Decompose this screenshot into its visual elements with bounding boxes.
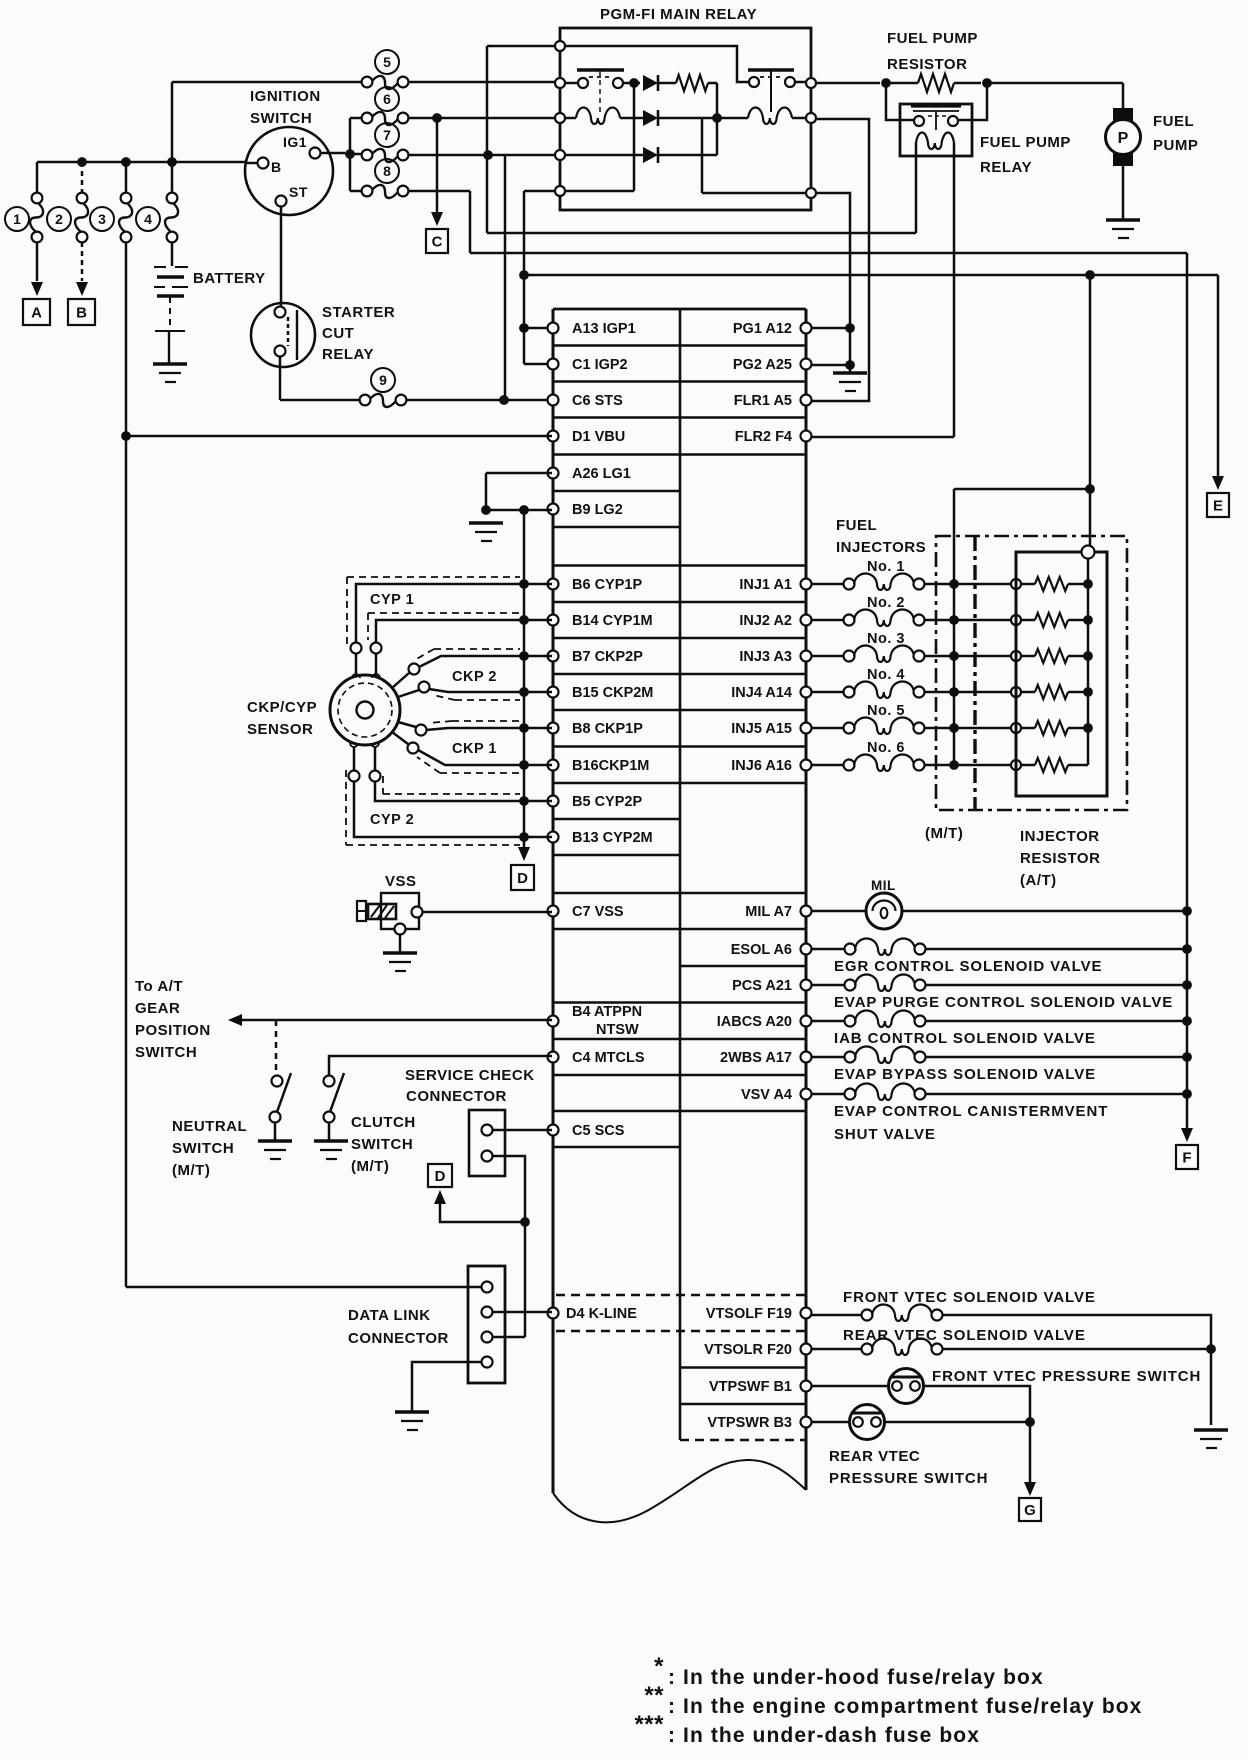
ECM row line	[553, 745, 806, 748]
wire fuse2 top lead (dashed)	[81, 162, 84, 193]
wire fuse4 to battery	[171, 242, 174, 266]
ECM pin 2WBS A17	[801, 1052, 812, 1063]
svg-text:BATTERY: BATTERY	[193, 270, 266, 287]
clutch switch blade	[330, 1073, 344, 1112]
junction shield bus	[519, 832, 529, 842]
connector ref E	[1207, 493, 1229, 517]
svg-text:*: *	[654, 1653, 664, 1680]
wire rear VTEC solenoid to ground bus	[942, 1348, 1211, 1351]
wire solenoid	[811, 1056, 845, 1059]
ECM row line	[553, 601, 806, 604]
power ground	[833, 371, 867, 375]
ECM pin VTPSWR B3	[801, 1417, 812, 1428]
wire CKP1 stub	[392, 732, 408, 744]
svg-text:POSITION: POSITION	[135, 1022, 211, 1039]
neutral switch contact	[272, 1076, 283, 1087]
ECM pin B15 CKP2M	[548, 687, 559, 698]
svg-text:P: P	[1118, 130, 1129, 147]
svg-text:CYP 1: CYP 1	[370, 592, 414, 608]
clutch switch contact	[324, 1112, 335, 1123]
relay contact 2	[748, 68, 794, 71]
solenoid terminal	[845, 1016, 856, 1027]
svg-text:B5 CYP2P: B5 CYP2P	[572, 794, 642, 810]
wire B8 CKP1P	[426, 728, 552, 730]
CKP2 terminal	[409, 664, 420, 675]
solenoid terminal	[845, 1052, 856, 1063]
arrow to F	[1181, 1128, 1193, 1142]
VSS sensor	[381, 893, 419, 929]
svg-text:: In the under-dash fuse box: : In the under-dash fuse box	[668, 1724, 980, 1747]
junction shield bus	[519, 651, 529, 661]
wire to relay pin1	[487, 45, 560, 48]
shield (dashed)	[417, 757, 440, 773]
front VTEC solenoid terminal	[862, 1310, 873, 1321]
svg-text:(A/T): (A/T)	[1020, 872, 1057, 889]
injector resistor pin 2	[1011, 615, 1021, 625]
svg-text:IGNITION: IGNITION	[250, 88, 321, 105]
ECM pin ESOL A6	[801, 944, 812, 955]
injector 1 terminal	[844, 579, 855, 590]
junction shield bus	[519, 760, 529, 770]
injector 3 terminal	[844, 651, 855, 662]
fuse number 4	[136, 207, 160, 231]
junction injector bus	[1085, 484, 1095, 494]
contact1 left	[578, 78, 588, 88]
ECM pin INJ3 A3	[801, 651, 812, 662]
pin ST	[276, 196, 287, 207]
wire B13 CYP2M	[354, 782, 552, 837]
wire resistor out	[708, 82, 717, 85]
wire IGP drop to injector resistor	[1089, 275, 1092, 545]
solenoid terminal	[915, 980, 926, 991]
svg-text:B4 ATPPN: B4 ATPPN	[572, 1004, 642, 1020]
fuse 1	[32, 193, 43, 204]
solenoid terminal	[915, 944, 926, 955]
svg-text:B8 CKP1P: B8 CKP1P	[572, 721, 643, 737]
svg-text:EVAP PURGE CONTROL SOLENOID VA: EVAP PURGE CONTROL SOLENOID VALVE	[834, 994, 1173, 1011]
svg-text:MIL: MIL	[871, 878, 896, 893]
rear VTEC solenoid terminal	[932, 1344, 943, 1355]
rear pressure switch contact	[853, 1417, 863, 1427]
wire MIL A7	[811, 910, 1186, 913]
wire solenoid to F bus	[925, 1056, 1186, 1059]
fuel pump relay box	[900, 104, 972, 156]
injector resistor element 3	[1035, 649, 1068, 663]
starter cut relay	[251, 303, 315, 367]
wire INJ2	[811, 619, 844, 622]
wire solenoid	[811, 948, 845, 951]
svg-text:SERVICE CHECK: SERVICE CHECK	[405, 1067, 535, 1084]
junction fuse7 / relay pin1 riser	[483, 150, 493, 160]
junction D ref	[520, 1217, 530, 1227]
injector resistor element 2	[1035, 613, 1068, 627]
wire	[1068, 764, 1088, 767]
svg-text:VTSOLR F20: VTSOLR F20	[704, 1342, 792, 1358]
wire	[1068, 691, 1088, 694]
svg-text:No. 2: No. 2	[867, 595, 905, 611]
junction F bus	[1182, 1016, 1192, 1026]
fuse number 8	[375, 159, 399, 183]
wire injector common bus	[953, 489, 956, 765]
wire IGP riser	[523, 191, 526, 364]
svg-text:ESOL A6: ESOL A6	[731, 942, 792, 958]
wire to fuel pump relay coil	[487, 232, 916, 235]
svg-text:VSS: VSS	[385, 873, 417, 890]
wire LG1 down	[485, 473, 488, 510]
svg-text:INJ5 A15: INJ5 A15	[731, 721, 792, 737]
front pressure switch contact	[892, 1381, 902, 1391]
injector resistor pin 1	[1011, 579, 1021, 589]
svg-text:G: G	[1024, 1502, 1036, 1519]
ECM row line	[553, 380, 806, 383]
ECM row line	[553, 1110, 806, 1113]
wire clutch switch to ground	[328, 1123, 331, 1141]
ECM pin INJ1 A1	[801, 579, 812, 590]
connector ref B	[68, 299, 95, 325]
svg-text:RESISTOR: RESISTOR	[1020, 850, 1100, 867]
junction shield bus	[519, 723, 529, 733]
fuse 5	[362, 77, 373, 88]
contact2 left	[749, 77, 759, 87]
svg-text:CLUTCH: CLUTCH	[351, 1114, 416, 1131]
injector 3 terminal	[914, 651, 925, 662]
svg-text:RESISTOR: RESISTOR	[887, 56, 967, 73]
wire feed to fuse 5	[172, 81, 362, 84]
injector resistor element 5	[1035, 721, 1068, 735]
svg-text:A13 IGP1: A13 IGP1	[572, 321, 636, 337]
VSS ground	[383, 951, 417, 955]
svg-text:No. 5: No. 5	[867, 703, 905, 719]
ECM left-column row line	[553, 818, 680, 821]
svg-text:CONNECTOR: CONNECTOR	[406, 1088, 507, 1105]
svg-text:B: B	[271, 159, 282, 175]
wire to C1 IGP2	[524, 363, 552, 366]
injector 6 coil	[854, 755, 914, 772]
svg-text:RELAY: RELAY	[980, 159, 1032, 176]
shield (dashed)	[383, 793, 520, 795]
relay pin p5	[555, 186, 565, 196]
ECM left-column row line	[553, 490, 680, 493]
arrow to C	[431, 212, 443, 226]
SCC pin 1	[482, 1125, 493, 1136]
diode D1	[643, 75, 658, 91]
wire fuse1 top lead	[36, 162, 39, 193]
diode D2	[643, 110, 658, 126]
wire to pump	[1122, 83, 1125, 112]
svg-text:5: 5	[383, 54, 391, 70]
wire q1 to resistor node	[816, 82, 880, 85]
wire	[1068, 655, 1088, 658]
fuse number 7	[375, 123, 399, 147]
wire CYP2 stub	[353, 747, 356, 770]
wire pin2 to contact1	[560, 82, 578, 85]
ECM pin C7 VSS	[548, 906, 559, 917]
wire resistor-diode junction vertical	[716, 83, 719, 155]
junction PG2	[845, 360, 855, 370]
wire pin5 internal	[560, 190, 634, 193]
svg-text:2WBS A17: 2WBS A17	[720, 1050, 792, 1066]
svg-text:CKP 1: CKP 1	[452, 741, 497, 757]
ECM row line	[553, 564, 806, 567]
svg-text:REAR VTEC: REAR VTEC	[829, 1448, 920, 1465]
wire solenoid	[811, 984, 845, 987]
wire INJ5	[811, 727, 844, 730]
wire to A13 IGP1	[524, 327, 552, 330]
wire fuse9 to C6 STS	[406, 399, 552, 402]
wire VTSOLR F20	[811, 1348, 862, 1351]
solenoid terminal	[845, 1089, 856, 1100]
shield (dashed)	[346, 577, 348, 645]
svg-text:A26 LG1: A26 LG1	[572, 466, 631, 482]
injector resistor element 1	[1035, 577, 1068, 591]
fuse 8	[362, 186, 373, 197]
wire to data link connector pin1	[126, 1286, 482, 1289]
svg-text:EGR CONTROL SOLENOID VALVE: EGR CONTROL SOLENOID VALVE	[834, 958, 1102, 975]
svg-text:A: A	[31, 305, 42, 322]
connector ref A	[23, 299, 50, 325]
junction IGP / E line	[519, 270, 529, 280]
injector resistor pin 3	[1011, 651, 1021, 661]
injector 2 coil	[854, 610, 914, 627]
shield (dashed)	[413, 649, 434, 661]
svg-text:RELAY: RELAY	[322, 346, 374, 363]
junction resistor left	[881, 78, 891, 88]
contact2 right	[785, 77, 795, 87]
neutral switch ground	[258, 1139, 292, 1143]
wire riser fuse7 junction to relay pin1 / coil line	[486, 46, 489, 233]
solenoid terminal	[915, 1052, 926, 1063]
ECM row line	[553, 1038, 806, 1041]
wire to FP relay contact right	[959, 83, 987, 120]
fuse number 6	[375, 87, 399, 111]
wire fuse8 corner down	[469, 191, 472, 253]
CKP1 terminal	[416, 725, 427, 736]
wire B15 CKP2M	[429, 689, 552, 692]
svg-text:CUT: CUT	[322, 325, 354, 342]
wire diode2 out	[658, 117, 717, 120]
wire contact2 to pin q1	[795, 81, 811, 84]
pin IG1	[310, 148, 321, 159]
wire FP relay coil to main-relay line	[915, 143, 918, 233]
junction injector common bus	[949, 723, 959, 733]
svg-text:(M/T): (M/T)	[925, 825, 963, 842]
relay pin p1	[555, 41, 565, 51]
data link connector box	[468, 1266, 505, 1383]
FP relay contact right	[948, 116, 958, 126]
clutch switch ground	[314, 1139, 348, 1143]
arrow to G	[1024, 1482, 1036, 1496]
starter cut relay pin top	[275, 307, 286, 318]
wire pin3 to coil1	[560, 117, 576, 120]
CKP/CYP sensor	[330, 675, 400, 745]
ignition switch	[245, 127, 333, 215]
ECM right boundary	[805, 309, 808, 1490]
wire injector 6 to resistor	[924, 764, 1011, 767]
ECM row line	[553, 416, 806, 419]
wire to D ref arrow	[440, 1203, 525, 1222]
ECM left-column row line	[553, 526, 680, 529]
wire	[1068, 619, 1088, 622]
svg-text:C7 VSS: C7 VSS	[572, 904, 624, 920]
svg-text:FLR2 F4: FLR2 F4	[735, 429, 792, 445]
wire VSS to ground	[399, 935, 402, 953]
wire front pressure switch to G	[923, 1386, 1030, 1418]
ECM row line	[553, 1074, 806, 1077]
svg-text:INJ2 A2: INJ2 A2	[739, 613, 792, 629]
junction	[167, 157, 177, 167]
neutral switch contact	[270, 1112, 281, 1123]
wire to power ground	[849, 365, 852, 373]
ECM top edge	[553, 308, 806, 311]
svg-text:PCS A21: PCS A21	[732, 978, 792, 994]
wire vertical IGP feed to C6 STS	[504, 155, 507, 400]
fuse 4	[167, 193, 178, 204]
wire injector 3 to resistor	[924, 655, 1011, 658]
FP relay contact left	[914, 116, 924, 126]
wire diode3 out	[658, 154, 717, 157]
wire fuse4 top lead	[171, 162, 174, 193]
injector M/T - A/T dash-dot enclosure	[936, 536, 1127, 810]
svg-text:1: 1	[13, 211, 21, 227]
svg-text:PG2 A25: PG2 A25	[733, 357, 792, 373]
ECM pin B4 ATPPN NTSW	[548, 1016, 559, 1027]
svg-text:FLR1 A5: FLR1 A5	[734, 393, 792, 409]
svg-text:FUEL: FUEL	[836, 517, 877, 534]
svg-text:9: 9	[379, 372, 387, 388]
fuse number 9	[371, 368, 395, 392]
ECM pin A26 LG1	[548, 468, 559, 479]
svg-text:B16CKP1M: B16CKP1M	[572, 758, 649, 774]
wire to DLC pin 3	[493, 1336, 525, 1339]
junction shield bus	[519, 796, 529, 806]
wire solenoid to F bus	[925, 1020, 1186, 1023]
resistor internal	[676, 75, 708, 91]
connector ref C	[426, 229, 448, 253]
junction F bus	[1182, 944, 1192, 954]
diode D3	[643, 147, 658, 163]
ECM pin INJ4 A14	[801, 687, 812, 698]
wire	[1068, 727, 1088, 730]
junction PG1	[845, 323, 855, 333]
DLC pin 1	[482, 1282, 493, 1293]
fuse number 1	[5, 207, 29, 231]
junction shield bus top	[519, 505, 529, 515]
starter cut relay contact bar	[296, 310, 298, 360]
wire VTPSWF B1	[811, 1385, 889, 1388]
svg-text:(M/T): (M/T)	[351, 1158, 389, 1175]
wire B4 ATPPN to gear position switch	[242, 1019, 552, 1022]
svg-text:CONNECTOR: CONNECTOR	[348, 1330, 449, 1347]
wire coil2 to pin q2	[792, 117, 811, 120]
shield (dashed)	[367, 613, 369, 640]
relay pin p2	[555, 78, 565, 88]
svg-text:C6 STS: C6 STS	[572, 393, 623, 409]
rear VTEC solenoid coil	[872, 1339, 932, 1356]
svg-text:**: **	[644, 1682, 664, 1709]
wire SCC pin2 down	[493, 1156, 525, 1337]
ECM pin C1 IGP2	[548, 359, 559, 370]
svg-text:7: 7	[383, 127, 391, 143]
front VTEC solenoid coil	[872, 1305, 932, 1322]
FP relay coil	[916, 133, 954, 150]
wire fuse5 to relay pin2	[408, 81, 555, 84]
junction shield bus	[519, 687, 529, 697]
svg-text:PUMP: PUMP	[1153, 137, 1198, 154]
svg-text:INJ3 A3: INJ3 A3	[739, 649, 792, 665]
solenoid coil EGR CONTROL SOLENOID VALVE	[855, 939, 915, 956]
ECM pin B8 CKP1P	[548, 723, 559, 734]
svg-text:CKP/CYP: CKP/CYP	[247, 699, 317, 716]
shield (dashed)	[368, 612, 520, 614]
wire SCC to C5 SCS	[493, 1129, 552, 1132]
ECM pin PG1 A12	[801, 323, 812, 334]
wire pump to ground	[1122, 166, 1125, 220]
wire solenoid to F bus	[925, 984, 1186, 987]
wire contact1 to junction	[623, 82, 640, 85]
injector resistor box	[1016, 552, 1107, 796]
shield (dashed)	[382, 776, 384, 794]
M/T divider (dash-dot)	[973, 536, 976, 810]
svg-text:F: F	[1182, 1150, 1191, 1167]
wire injector bus to IGP riser	[954, 488, 1090, 491]
svg-text:B6 CYP1P: B6 CYP1P	[572, 577, 642, 593]
ECM dashed row line	[556, 1294, 806, 1297]
svg-text:CKP 2: CKP 2	[452, 669, 497, 685]
injector 5 coil	[854, 718, 914, 735]
injector 6 terminal	[844, 760, 855, 771]
fuel pump relay contact	[911, 104, 961, 107]
junction IGP line	[1085, 270, 1095, 280]
injector 2 terminal	[844, 615, 855, 626]
junction contact1 out	[629, 78, 639, 88]
ECM pin B9 LG2	[548, 504, 559, 515]
wire to fuel pump	[991, 82, 1123, 85]
injector 3 coil	[854, 646, 914, 663]
ECM pin A13 IGP1	[548, 323, 559, 334]
ECM torn-edge bottom	[553, 1460, 806, 1522]
arrow to E	[1212, 476, 1224, 490]
ECM pin INJ2 A2	[801, 615, 812, 626]
SCC pin 2	[482, 1151, 493, 1162]
pin B	[258, 158, 269, 169]
svg-text:SHUT VALVE: SHUT VALVE	[834, 1126, 936, 1143]
injector 5 terminal	[844, 723, 855, 734]
junction injector common bus	[949, 760, 959, 770]
wire main hot bus	[37, 161, 246, 164]
ECM row line	[553, 892, 806, 895]
wire	[1021, 764, 1035, 767]
svg-text:INJ1 A1: INJ1 A1	[739, 577, 792, 593]
connector ref D	[511, 865, 534, 890]
svg-text:INJECTORS: INJECTORS	[836, 539, 926, 556]
svg-text:***: ***	[634, 1711, 664, 1738]
connector ref D	[428, 1164, 452, 1187]
fuse 2	[77, 193, 88, 204]
wire starter relay to fuse 9	[279, 357, 282, 400]
ECM pin IABCS A20	[801, 1016, 812, 1027]
solenoid terminal	[845, 980, 856, 991]
DLC pin 4	[482, 1357, 493, 1368]
relay coil 1	[576, 108, 620, 125]
ECM pin VTSOLR F20	[801, 1344, 812, 1355]
wire fuse3 down to VBU tap	[125, 242, 128, 435]
svg-text:: In the engine compartment fu: : In the engine compartment fuse/relay b…	[668, 1695, 1142, 1718]
junction LG ground	[481, 505, 491, 515]
ECM pin C5 SCS	[548, 1125, 559, 1136]
wire to FP relay contact left	[886, 83, 914, 120]
injector 1 terminal	[914, 579, 925, 590]
svg-text:C: C	[432, 234, 443, 251]
